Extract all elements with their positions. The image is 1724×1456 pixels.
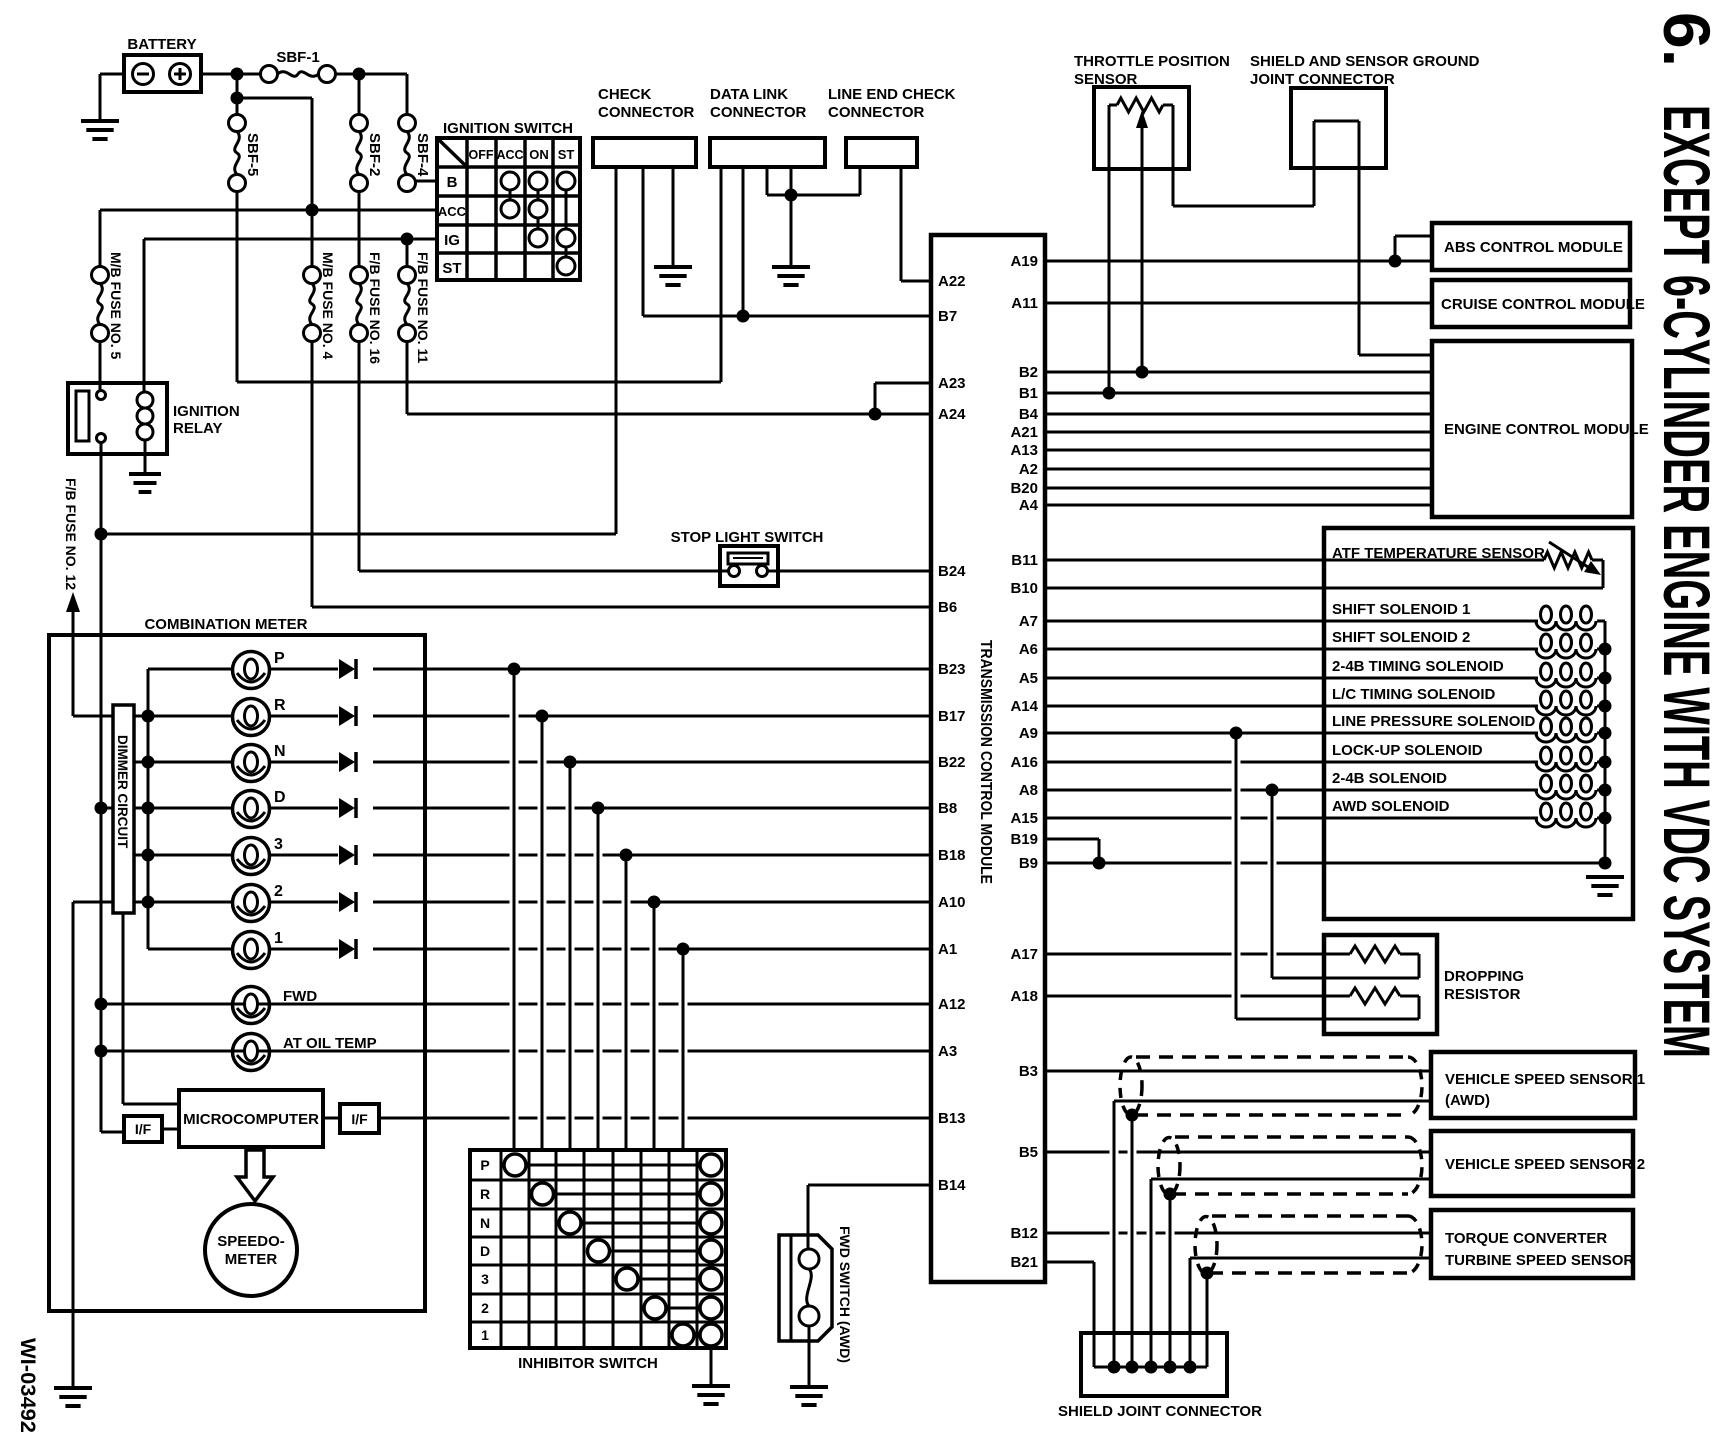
fuse M/B FUSE NO. 5	[92, 252, 125, 360]
svg-text:INHIBITOR SWITCH: INHIBITOR SWITCH	[518, 1355, 658, 1372]
wire relay coil to ground	[144, 440, 147, 474]
svg-text:B22: B22	[938, 754, 966, 771]
svg-text:B8: B8	[938, 800, 957, 817]
inhibitor contact N	[559, 1212, 722, 1234]
junction shield joint 1132	[1126, 1361, 1139, 1374]
wire A4 to ECM	[1045, 504, 1432, 507]
svg-text:AT OIL TEMP: AT OIL TEMP	[283, 1035, 377, 1052]
fuse F/B FUSE NO. 16	[351, 252, 384, 364]
svg-text:B4: B4	[1019, 406, 1039, 423]
ground FWD switch	[790, 1387, 828, 1405]
svg-text:2: 2	[274, 883, 283, 900]
svg-text:B3: B3	[1019, 1063, 1038, 1080]
junction bus 3	[142, 849, 155, 862]
ATF sensor resistor	[1544, 542, 1601, 575]
wire B13	[379, 1117, 931, 1120]
wire A19 riser to ABS	[1395, 236, 1432, 261]
ignition switch contact links	[510, 190, 566, 257]
svg-text:B21: B21	[1010, 1254, 1038, 1271]
junction IG/F-B-11	[401, 233, 414, 246]
wire lamp row R	[134, 715, 931, 718]
VSS1 shield	[1120, 1057, 1422, 1115]
TCM left pin labels	[938, 273, 966, 1194]
svg-text:TURBINE SPEED SENSOR: TURBINE SPEED SENSOR	[1445, 1252, 1634, 1269]
ground data link	[772, 267, 810, 285]
wire solenoid AWD SOLENOID	[1045, 798, 1538, 818]
VSS1 return wire	[1114, 1101, 1431, 1367]
wire SBF-1 to SBF-4	[335, 74, 407, 115]
svg-text:B12: B12	[1010, 1225, 1038, 1242]
junction shield joint 1170	[1164, 1361, 1177, 1374]
svg-text:2-4B TIMING SOLENOID: 2-4B TIMING SOLENOID	[1332, 658, 1504, 675]
page title	[1650, 12, 1724, 1058]
svg-text:SHIELD JOINT CONNECTOR: SHIELD JOINT CONNECTOR	[1058, 1403, 1262, 1420]
solenoid coil LINE PRESSURE SOLENOID	[1536, 718, 1605, 742]
ignition switch contacts IG row	[529, 229, 575, 247]
wire dimmer to ground	[73, 902, 113, 1388]
svg-text:A24: A24	[938, 406, 966, 423]
svg-text:D: D	[480, 1243, 490, 1259]
solenoid coil 2-4B SOLENOID	[1536, 775, 1605, 799]
svg-text:ABS CONTROL MODULE: ABS CONTROL MODULE	[1444, 239, 1623, 256]
svg-text:THROTTLE POSITION: THROTTLE POSITION	[1074, 53, 1230, 70]
lamp P	[233, 650, 286, 689]
svg-text:SBF-2: SBF-2	[366, 133, 383, 176]
svg-text:CRUISE CONTROL MODULE: CRUISE CONTROL MODULE	[1441, 296, 1645, 313]
junction ACC/M-B-4	[306, 204, 319, 217]
dropping resistor 2 return	[1236, 733, 1419, 1019]
fuse M/B FUSE NO. 4	[304, 252, 337, 360]
svg-text:LINE PRESSURE SOLENOID: LINE PRESSURE SOLENOID	[1332, 713, 1536, 730]
wire A13 to ECM	[1045, 449, 1432, 452]
svg-text:B13: B13	[938, 1110, 966, 1127]
shield joint connector	[1058, 1333, 1262, 1420]
junction solenoid bus 818	[1599, 812, 1612, 825]
svg-text:B20: B20	[1010, 480, 1038, 497]
svg-text:IGNITION SWITCH: IGNITION SWITCH	[443, 120, 573, 137]
check connector pin2 wire to B7	[642, 167, 645, 316]
ignition relay	[68, 383, 240, 454]
battery	[124, 36, 201, 92]
TPS wiper to B2	[1136, 110, 1148, 372]
svg-text:SBF-1: SBF-1	[276, 49, 319, 66]
ignition switch row labels	[438, 174, 467, 277]
wire battery positive to SBF-1	[201, 73, 260, 76]
ignition switch contacts ACC row	[501, 200, 547, 218]
junction relay-line AT-OIL row	[95, 1045, 108, 1058]
svg-text:P: P	[480, 1157, 489, 1173]
junction shield joint 1190	[1184, 1361, 1197, 1374]
junction solenoid bus 649	[1599, 643, 1612, 656]
line end check connector	[828, 86, 956, 167]
ground battery	[81, 121, 119, 139]
inhibitor contact 3	[616, 1268, 722, 1290]
throttle position sensor	[1074, 53, 1230, 169]
lamp 1	[233, 930, 284, 969]
lamp 3	[233, 836, 284, 875]
FWD switch	[779, 1226, 853, 1363]
fuse SBF-4	[399, 115, 432, 192]
data link pin2 wire	[742, 167, 745, 316]
junction row 2 / inhibitor column	[648, 896, 661, 909]
svg-text:B7: B7	[938, 308, 957, 325]
wire B3	[1045, 1070, 1431, 1073]
wire B5	[1045, 1151, 1431, 1154]
svg-text:SHIFT SOLENOID 2: SHIFT SOLENOID 2	[1332, 629, 1470, 646]
svg-text:FWD SWITCH (AWD): FWD SWITCH (AWD)	[837, 1226, 853, 1363]
wire ignition IG row	[144, 239, 437, 392]
svg-text:B1: B1	[1019, 385, 1038, 402]
wire B12	[1045, 1232, 1431, 1235]
diode 3	[339, 845, 356, 865]
junction solenoid bus 733	[1599, 727, 1612, 740]
svg-text:B17: B17	[938, 708, 966, 725]
wire SBF-2 to F/B fuse16	[358, 191, 361, 266]
lamp D	[233, 789, 286, 828]
wire inhibitor common to ground	[710, 1348, 713, 1386]
svg-text:OFF: OFF	[469, 148, 494, 162]
wire solenoid LINE PRESSURE SOLENOID	[1045, 713, 1538, 733]
lamp bus	[147, 669, 150, 949]
junction A9/dropping resistor	[1230, 727, 1243, 740]
svg-text:I/F: I/F	[351, 1111, 368, 1127]
svg-text:FWD: FWD	[283, 988, 317, 1005]
junction solenoid bus 706	[1599, 700, 1612, 713]
transmission control module	[931, 235, 1045, 1282]
svg-text:SHIFT SOLENOID 1: SHIFT SOLENOID 1	[1332, 601, 1470, 618]
junction relay/check connector	[95, 528, 108, 541]
junction row R / inhibitor column	[536, 710, 549, 723]
svg-text:B24: B24	[938, 563, 966, 580]
ignition switch column labels	[469, 147, 575, 162]
svg-text:F/B FUSE NO. 11: F/B FUSE NO. 11	[415, 252, 431, 363]
svg-text:METER: METER	[225, 1251, 278, 1268]
svg-text:A16: A16	[1010, 754, 1038, 771]
solenoid coil SHIFT SOLENOID 2	[1536, 634, 1605, 658]
wire A11	[1045, 302, 1432, 305]
junction data link pin4 node	[785, 189, 798, 202]
diode 1	[339, 939, 356, 959]
wire B21 to shield joint connector	[1045, 1262, 1207, 1367]
svg-text:A6: A6	[1019, 641, 1038, 658]
fuse SBF-1	[261, 49, 336, 83]
wire B20 to ECM	[1045, 487, 1432, 490]
wire node to line end check	[791, 167, 860, 195]
svg-text:A23: A23	[938, 375, 966, 392]
dropping resistor 1 return	[1272, 790, 1419, 978]
wire lamp row N	[134, 761, 931, 764]
wire relay to check connector	[101, 167, 616, 534]
wire A19	[1045, 260, 1432, 263]
wire FWD row	[101, 1003, 931, 1006]
ground check connector	[654, 267, 692, 285]
svg-text:6.: 6.	[1650, 12, 1724, 67]
ATF sensor return to B10	[1592, 560, 1603, 588]
svg-text:STOP LIGHT SWITCH: STOP LIGHT SWITCH	[671, 529, 824, 546]
wire A21 to ECM	[1045, 431, 1432, 434]
svg-text:CONNECTOR: CONNECTOR	[828, 104, 925, 121]
solenoid common bus	[1604, 621, 1607, 863]
svg-text:B9: B9	[1019, 855, 1038, 872]
svg-text:A1: A1	[938, 941, 957, 958]
wire battery negative to ground	[100, 74, 124, 121]
junction row 1 / inhibitor column	[677, 943, 690, 956]
torque shield drain	[1201, 1267, 1214, 1368]
svg-text:A15: A15	[1010, 810, 1038, 827]
vehicle speed sensor 1 box	[1431, 1052, 1645, 1118]
svg-text:A22: A22	[938, 273, 966, 290]
svg-text:A17: A17	[1010, 946, 1038, 963]
svg-text:MICROCOMPUTER: MICROCOMPUTER	[183, 1111, 319, 1128]
svg-text:CONNECTOR: CONNECTOR	[710, 104, 807, 121]
VSS2 shield drain	[1164, 1188, 1177, 1368]
wire inhibitor column R	[541, 716, 544, 1150]
TPS left lead to B1	[1109, 105, 1117, 393]
svg-text:2: 2	[481, 1300, 489, 1316]
svg-text:M/B FUSE NO. 4: M/B FUSE NO. 4	[320, 252, 336, 360]
solenoid coil L/C TIMING SOLENOID	[1536, 691, 1605, 715]
svg-text:A21: A21	[1010, 424, 1038, 441]
junction A23/A24	[869, 408, 882, 421]
junction battery/SBF-5 node	[231, 68, 244, 81]
ABS control module	[1432, 223, 1630, 270]
wire relay out	[100, 442, 103, 534]
interface I/F left	[124, 1116, 179, 1142]
combination meter box	[49, 616, 425, 1311]
junction solenoid bus 762	[1599, 756, 1612, 769]
vehicle speed sensor 2 box	[1431, 1131, 1645, 1196]
arrow microcomputer to speedometer	[237, 1150, 273, 1201]
svg-text:LOCK-UP SOLENOID: LOCK-UP SOLENOID	[1332, 742, 1483, 759]
svg-text:L/C TIMING SOLENOID: L/C TIMING SOLENOID	[1332, 686, 1495, 703]
svg-text:RESISTOR: RESISTOR	[1444, 986, 1521, 1003]
solenoid coil AWD SOLENOID	[1536, 803, 1605, 827]
junction TPS wiper/B2	[1136, 366, 1149, 379]
wire solenoid SHIFT SOLENOID 1	[1045, 601, 1538, 621]
inhibitor row labels	[480, 1157, 490, 1343]
wire B4 to ECM	[1045, 413, 1432, 416]
junction relay-line D row	[95, 802, 108, 815]
ground relay	[129, 474, 161, 492]
VSS2 shield	[1158, 1137, 1422, 1195]
svg-text:F/B FUSE NO. 16: F/B FUSE NO. 16	[367, 252, 383, 364]
VSS1 shield drain	[1126, 1109, 1139, 1368]
junction shield joint 1114	[1108, 1361, 1121, 1374]
svg-text:VEHICLE SPEED SENSOR 1: VEHICLE SPEED SENSOR 1	[1445, 1071, 1645, 1088]
inhibitor contact R	[532, 1183, 723, 1205]
svg-text:P: P	[274, 650, 285, 667]
junction row N / inhibitor column	[564, 756, 577, 769]
diode P	[339, 659, 356, 679]
svg-text:DIMMER CIRCUIT: DIMMER CIRCUIT	[115, 735, 130, 849]
junction solenoid bus 678	[1599, 672, 1612, 685]
junction A8/dropping resistor	[1266, 784, 1279, 797]
inhibitor contact D	[588, 1240, 723, 1262]
ATF temperature sensor label	[1332, 545, 1545, 562]
junction relay-line FWD row	[95, 998, 108, 1011]
junction shield joint 1151	[1145, 1361, 1158, 1374]
wire inhibitor column 3	[625, 855, 628, 1150]
junction B19/B9	[1093, 857, 1106, 870]
junction solenoid bus 790	[1599, 784, 1612, 797]
svg-text:D: D	[274, 789, 286, 806]
wire IG to F/B fuse No.11	[406, 239, 409, 267]
svg-text:IG: IG	[444, 232, 460, 249]
svg-text:N: N	[480, 1215, 490, 1231]
svg-text:B23: B23	[938, 661, 966, 678]
svg-text:3: 3	[274, 836, 283, 853]
svg-text:B5: B5	[1019, 1144, 1038, 1161]
junction bus/B9	[1599, 857, 1612, 870]
fuse SBF-5	[229, 115, 262, 192]
junction SBF-1 out node	[353, 68, 366, 81]
svg-text:ST: ST	[558, 147, 575, 162]
ground combination meter	[54, 1388, 92, 1406]
svg-text:B2: B2	[1019, 364, 1038, 381]
svg-text:A11: A11	[1011, 295, 1038, 312]
svg-text:CHECK: CHECK	[598, 86, 652, 103]
svg-text:M/B FUSE NO. 5: M/B FUSE NO. 5	[108, 252, 124, 360]
data link connector	[710, 86, 825, 167]
svg-text:F/B FUSE NO. 12: F/B FUSE NO. 12	[63, 478, 79, 590]
wire B2 to ECM	[1045, 371, 1432, 374]
wire solenoid L/C TIMING SOLENOID	[1045, 686, 1538, 706]
junction bus 2	[142, 896, 155, 909]
wire solenoid 2-4B SOLENOID	[1045, 770, 1538, 790]
shield and sensor ground joint connector	[1250, 53, 1480, 168]
lamp FWD	[233, 987, 318, 1024]
svg-text:SHIELD AND SENSOR GROUND: SHIELD AND SENSOR GROUND	[1250, 53, 1480, 70]
svg-text:EXCEPT 6-CYLINDER ENGINE WITH: EXCEPT 6-CYLINDER ENGINE WITH VDC SYSTEM	[1650, 105, 1724, 1058]
svg-text:ON: ON	[529, 147, 549, 162]
svg-text:B19: B19	[1010, 831, 1038, 848]
svg-text:TRANSMISSION CONTROL MODULE: TRANSMISSION CONTROL MODULE	[977, 640, 994, 884]
wire FWD switch to ground	[808, 1326, 811, 1387]
wire SBF-4 to ignition switch B	[414, 180, 437, 183]
junction row 3 / inhibitor column	[620, 849, 633, 862]
inhibitor switch grid	[470, 1150, 726, 1372]
svg-text:COMBINATION METER: COMBINATION METER	[144, 616, 307, 633]
ignition switch table	[437, 120, 580, 280]
check connector	[593, 86, 696, 167]
svg-text:ENGINE CONTROL MODULE: ENGINE CONTROL MODULE	[1444, 421, 1649, 438]
wire solenoid 2-4B TIMING SOLENOID	[1045, 658, 1538, 678]
TPS right lead	[1163, 105, 1314, 206]
svg-text:AWD SOLENOID: AWD SOLENOID	[1332, 798, 1450, 815]
diode D	[339, 798, 356, 818]
torque sensor shield	[1195, 1216, 1422, 1274]
torque sensor return wire	[1190, 1258, 1431, 1367]
wire lamp row 3	[134, 854, 931, 857]
wire stop light switch to B24	[778, 570, 931, 573]
svg-text:A13: A13	[1010, 442, 1038, 459]
check connector pin3 to ground	[672, 167, 675, 267]
junction data link pin2 / B7	[737, 310, 750, 323]
wire F/B16 to stop light switch	[359, 341, 720, 571]
lamp 2	[233, 883, 284, 922]
svg-text:A19: A19	[1010, 253, 1038, 270]
svg-text:B18: B18	[938, 847, 966, 864]
svg-text:A4: A4	[1019, 497, 1039, 514]
svg-text:SENSOR: SENSOR	[1074, 71, 1138, 88]
svg-text:TORQUE CONVERTER: TORQUE CONVERTER	[1445, 1230, 1607, 1247]
inhibitor contact P	[504, 1154, 722, 1176]
lamp R	[233, 697, 287, 736]
data link pin4 wire to ground	[790, 167, 793, 267]
svg-text:(AWD): (AWD)	[1445, 1092, 1490, 1109]
relay coil	[137, 392, 153, 440]
diode N	[339, 752, 356, 772]
junction bus N	[142, 756, 155, 769]
wire B9	[1045, 862, 1605, 865]
svg-text:I/F: I/F	[135, 1121, 152, 1137]
junction row P / inhibitor column	[508, 663, 521, 676]
svg-text:A7: A7	[1019, 613, 1038, 630]
wire A18	[1045, 995, 1350, 998]
wire A17	[1045, 953, 1350, 956]
svg-text:1: 1	[481, 1327, 489, 1343]
svg-text:B10: B10	[1010, 580, 1038, 597]
svg-text:DATA LINK: DATA LINK	[710, 86, 788, 103]
wire IG to relay coil	[143, 239, 146, 392]
wire branch to M/B fuse No.4	[237, 98, 312, 266]
svg-text:A9: A9	[1019, 725, 1038, 742]
svg-text:1: 1	[274, 930, 283, 947]
svg-text:WI-03492: WI-03492	[16, 1338, 39, 1433]
diode R	[339, 706, 356, 726]
svg-text:A18: A18	[1010, 988, 1038, 1005]
junction SBF-5/M-B-fuse-4 branch	[231, 92, 244, 105]
wire F/B fuse No.12 net	[63, 478, 113, 716]
wire SBF-5 to data link pin1 net	[237, 167, 721, 382]
wire B11	[1045, 559, 1544, 562]
svg-text:SBF-4: SBF-4	[414, 133, 431, 177]
wire dimmer to microcomputer	[123, 913, 179, 1104]
svg-text:A5: A5	[1019, 670, 1038, 687]
dimmer circuit	[113, 705, 134, 913]
svg-text:IGNITION: IGNITION	[173, 403, 240, 420]
junction row D / inhibitor column	[592, 802, 605, 815]
svg-text:B6: B6	[938, 599, 957, 616]
speedometer	[205, 1204, 297, 1296]
solenoid coil 2-4B TIMING SOLENOID	[1536, 663, 1605, 687]
svg-text:BATTERY: BATTERY	[127, 36, 196, 53]
wire inhibitor column N	[569, 762, 572, 1150]
svg-text:A8: A8	[1019, 782, 1038, 799]
VSS2 return wire	[1151, 1179, 1431, 1367]
lamp N	[233, 743, 286, 782]
ground solenoid bus	[1586, 877, 1624, 895]
engine control module	[1432, 341, 1649, 517]
wire line end check to A22	[901, 167, 931, 281]
wire inhibitor column P	[513, 669, 516, 1150]
interface I/F right	[323, 1104, 379, 1133]
svg-text:A2: A2	[1019, 461, 1038, 478]
svg-text:B14: B14	[938, 1177, 966, 1194]
stop light switch	[671, 529, 824, 586]
wire M/B4 to B6	[312, 341, 931, 607]
TCM right pin labels	[1010, 253, 1038, 1271]
dropping resistor 2	[1350, 988, 1400, 1004]
fuse F/B FUSE NO. 11	[399, 252, 432, 363]
svg-text:3: 3	[481, 1271, 489, 1287]
wire AT OIL TEMP row	[101, 1050, 931, 1053]
wire B14 to FWD switch	[808, 1185, 931, 1249]
svg-text:R: R	[274, 697, 286, 714]
svg-text:ACC: ACC	[496, 148, 523, 162]
svg-text:N: N	[274, 743, 286, 760]
svg-text:A3: A3	[938, 1043, 957, 1060]
